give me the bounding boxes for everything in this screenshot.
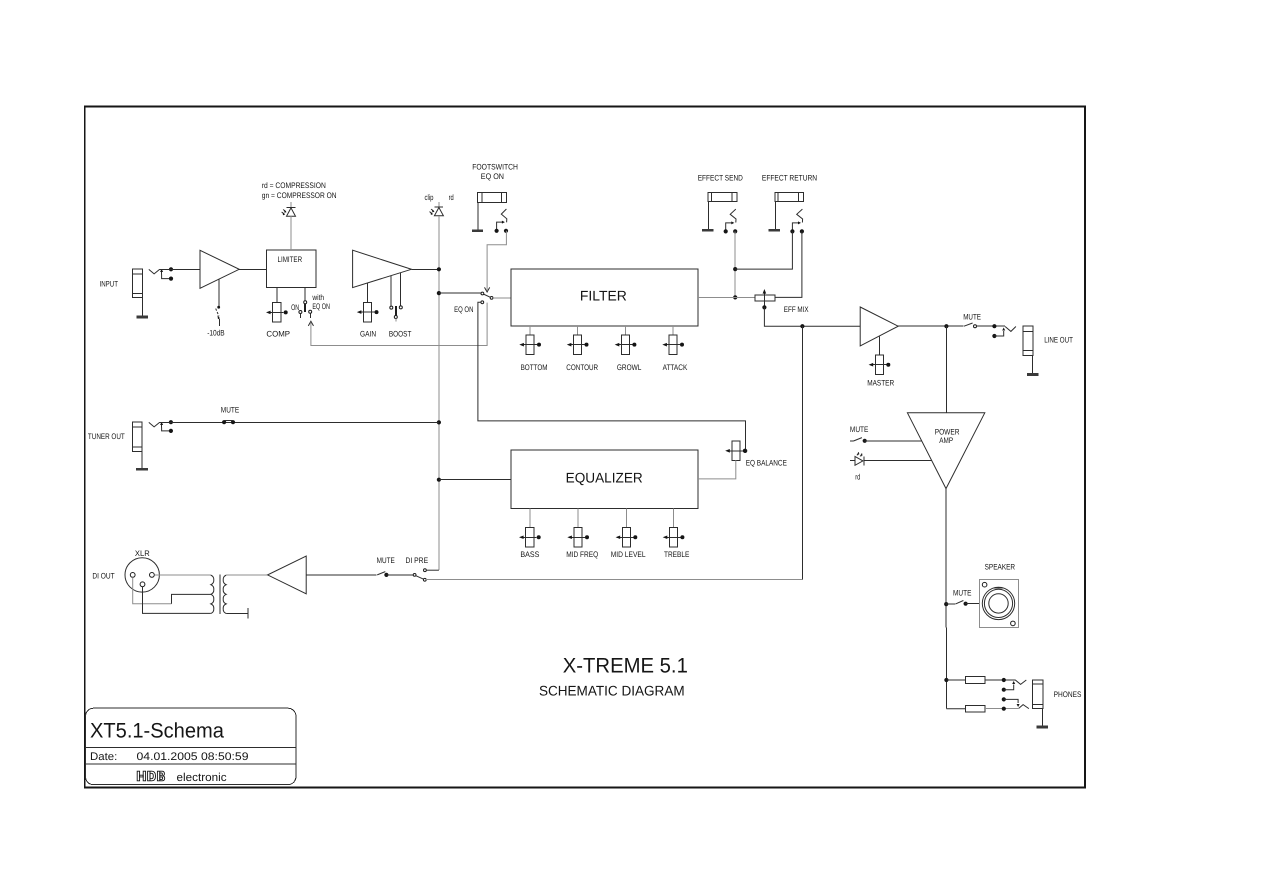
svg-text:SPEAKER: SPEAKER — [985, 562, 1016, 571]
svg-text:EFFECT RETURN: EFFECT RETURN — [762, 174, 817, 183]
svg-text:CONTOUR: CONTOUR — [566, 363, 598, 372]
svg-text:Date:: Date: — [90, 751, 117, 763]
svg-text:XT5.1-Schema: XT5.1-Schema — [90, 719, 224, 742]
svg-text:EQ ON: EQ ON — [481, 172, 504, 181]
svg-text:MUTE: MUTE — [221, 406, 239, 415]
svg-text:X-TREME 5.1: X-TREME 5.1 — [563, 655, 688, 678]
svg-text:-10dB: -10dB — [207, 329, 225, 338]
svg-text:electronic: electronic — [177, 772, 227, 784]
svg-text:EQUALIZER: EQUALIZER — [566, 470, 643, 486]
svg-text:MUTE: MUTE — [953, 589, 971, 598]
svg-text:SCHEMATIC DIAGRAM: SCHEMATIC DIAGRAM — [539, 682, 685, 698]
svg-text:MID FREQ: MID FREQ — [566, 550, 598, 559]
svg-text:rd = COMPRESSION: rd = COMPRESSION — [262, 181, 326, 190]
svg-text:BOOST: BOOST — [389, 329, 412, 338]
svg-text:LINE OUT: LINE OUT — [1044, 336, 1073, 345]
svg-text:TUNER OUT: TUNER OUT — [88, 432, 125, 441]
svg-text:MUTE: MUTE — [963, 312, 981, 321]
svg-text:XLR: XLR — [135, 549, 150, 558]
svg-text:BOTTOM: BOTTOM — [521, 363, 548, 372]
svg-text:04.01.2005 08:50:59: 04.01.2005 08:50:59 — [137, 751, 249, 763]
svg-text:AMP: AMP — [939, 436, 953, 445]
svg-text:EFF MIX: EFF MIX — [784, 305, 809, 314]
svg-text:DI OUT: DI OUT — [92, 571, 114, 580]
svg-text:rd: rd — [855, 472, 860, 481]
svg-text:EQ ON: EQ ON — [312, 302, 330, 311]
svg-text:with: with — [312, 293, 325, 302]
svg-text:GAIN: GAIN — [360, 329, 376, 338]
svg-text:INPUT: INPUT — [100, 279, 119, 288]
svg-text:EQ BALANCE: EQ BALANCE — [746, 459, 787, 468]
svg-text:rd: rd — [449, 193, 454, 202]
svg-text:TREBLE: TREBLE — [664, 550, 689, 559]
svg-text:MASTER: MASTER — [867, 378, 894, 387]
svg-text:FOOTSWITCH: FOOTSWITCH — [472, 162, 518, 171]
svg-text:EFFECT SEND: EFFECT SEND — [698, 174, 743, 183]
svg-text:LIMITER: LIMITER — [278, 255, 303, 264]
svg-text:ON: ON — [291, 303, 299, 312]
svg-text:COMP: COMP — [266, 329, 290, 338]
svg-text:FILTER: FILTER — [580, 287, 627, 303]
svg-text:MUTE: MUTE — [850, 425, 869, 434]
svg-text:clip: clip — [425, 193, 434, 202]
svg-text:PHONES: PHONES — [1054, 690, 1082, 699]
svg-text:DI PRE: DI PRE — [406, 556, 429, 565]
svg-text:MUTE: MUTE — [377, 556, 395, 565]
svg-text:BASS: BASS — [520, 550, 539, 559]
svg-text:EQ ON: EQ ON — [454, 305, 473, 314]
svg-text:ATTACK: ATTACK — [663, 363, 688, 372]
svg-text:MID LEVEL: MID LEVEL — [611, 550, 646, 559]
svg-text:GROWL: GROWL — [617, 363, 642, 372]
svg-text:gn = COMPRESSOR ON: gn = COMPRESSOR ON — [262, 191, 337, 200]
